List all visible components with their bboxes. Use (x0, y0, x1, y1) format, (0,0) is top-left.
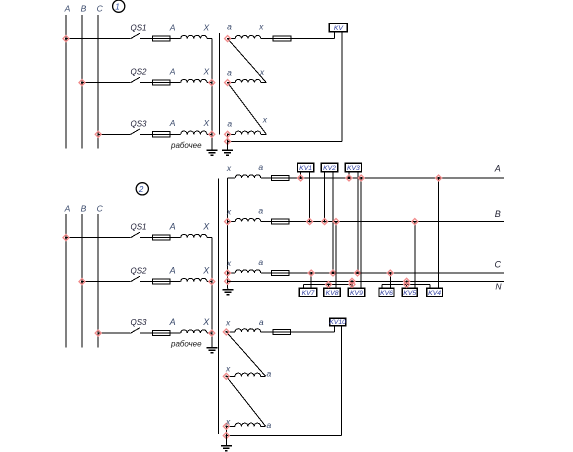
svg-text:Х: Х (202, 118, 209, 128)
svg-text:C: C (494, 260, 501, 270)
svg-text:А: А (169, 221, 176, 231)
svg-text:QS2: QS2 (130, 68, 147, 77)
svg-text:1: 1 (115, 2, 119, 11)
svg-text:KV2: KV2 (323, 165, 336, 172)
svg-text:а: а (227, 67, 232, 77)
svg-text:Х: Х (202, 221, 210, 231)
svg-text:а: а (258, 205, 263, 215)
svg-text:х: х (259, 67, 265, 77)
svg-text:х: х (225, 363, 231, 373)
svg-text:C: C (97, 204, 104, 214)
svg-text:A: A (494, 163, 501, 173)
svg-text:N: N (495, 281, 502, 291)
svg-text:KV: KV (334, 25, 345, 32)
svg-text:А: А (169, 66, 176, 76)
svg-text:A: A (64, 204, 71, 214)
svg-text:А: А (169, 265, 176, 275)
svg-text:А: А (169, 118, 176, 128)
svg-text:KV6: KV6 (380, 290, 393, 297)
svg-text:а: а (258, 162, 263, 172)
svg-text:C: C (97, 4, 104, 14)
svg-text:х: х (226, 163, 232, 173)
svg-text:Х: Х (202, 265, 210, 275)
svg-text:рабочее: рабочее (170, 141, 202, 150)
svg-text:а: а (267, 420, 272, 430)
svg-text:QS3: QS3 (130, 119, 147, 128)
svg-text:х: х (225, 417, 231, 427)
svg-text:KV5: KV5 (403, 290, 416, 297)
svg-text:Х: Х (202, 317, 210, 327)
svg-text:а: а (227, 22, 232, 32)
svg-text:A: A (64, 4, 71, 14)
svg-text:KV10: KV10 (329, 319, 346, 326)
svg-text:B: B (495, 209, 501, 219)
svg-text:х: х (258, 22, 264, 32)
svg-text:х: х (262, 114, 268, 124)
svg-text:х: х (226, 207, 232, 217)
svg-text:KV4: KV4 (428, 290, 441, 297)
svg-text:а: а (227, 119, 232, 129)
svg-text:А: А (169, 317, 176, 327)
svg-text:KV7: KV7 (302, 290, 315, 297)
svg-text:KV3: KV3 (347, 165, 360, 172)
svg-text:KV8: KV8 (326, 290, 339, 297)
svg-text:х: х (225, 318, 231, 328)
svg-text:QS3: QS3 (130, 318, 147, 327)
svg-text:а: а (259, 317, 264, 327)
svg-text:KV9: KV9 (350, 290, 363, 297)
svg-text:QS2: QS2 (130, 267, 147, 276)
svg-text:B: B (81, 204, 87, 214)
svg-text:Х: Х (202, 66, 209, 76)
svg-text:а: а (258, 257, 263, 267)
svg-text:х: х (226, 258, 232, 268)
svg-text:KV1: KV1 (299, 165, 312, 172)
svg-text:QS1: QS1 (130, 223, 146, 232)
svg-text:А: А (169, 22, 176, 32)
svg-text:2: 2 (138, 185, 144, 194)
svg-text:рабочее: рабочее (170, 340, 202, 349)
svg-text:Х: Х (202, 22, 209, 32)
svg-text:B: B (81, 4, 87, 14)
svg-text:QS1: QS1 (130, 24, 146, 33)
svg-text:а: а (267, 369, 272, 379)
